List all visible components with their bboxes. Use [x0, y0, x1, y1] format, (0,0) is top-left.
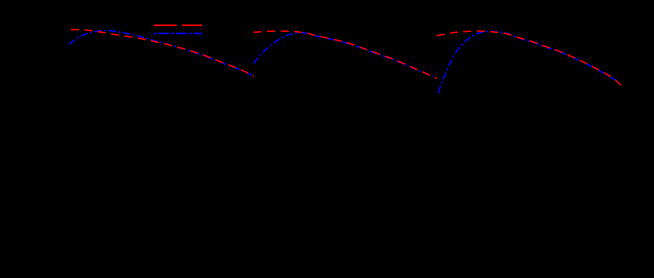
blue dash-dot curve, cycle 2 [254, 33, 433, 77]
red dashed curve, cycle 3 [437, 31, 624, 87]
red dashed curve, cycle 1 [71, 30, 254, 77]
blue dash-dot curve, cycle 3 [438, 31, 619, 92]
legend: blue dash-dot line sample [154, 32, 202, 34]
legend: red dashed line sample [154, 24, 202, 26]
red dashed curve, cycle 2 [254, 31, 438, 79]
blue dash-dot curve, cycle 1 [69, 31, 252, 76]
